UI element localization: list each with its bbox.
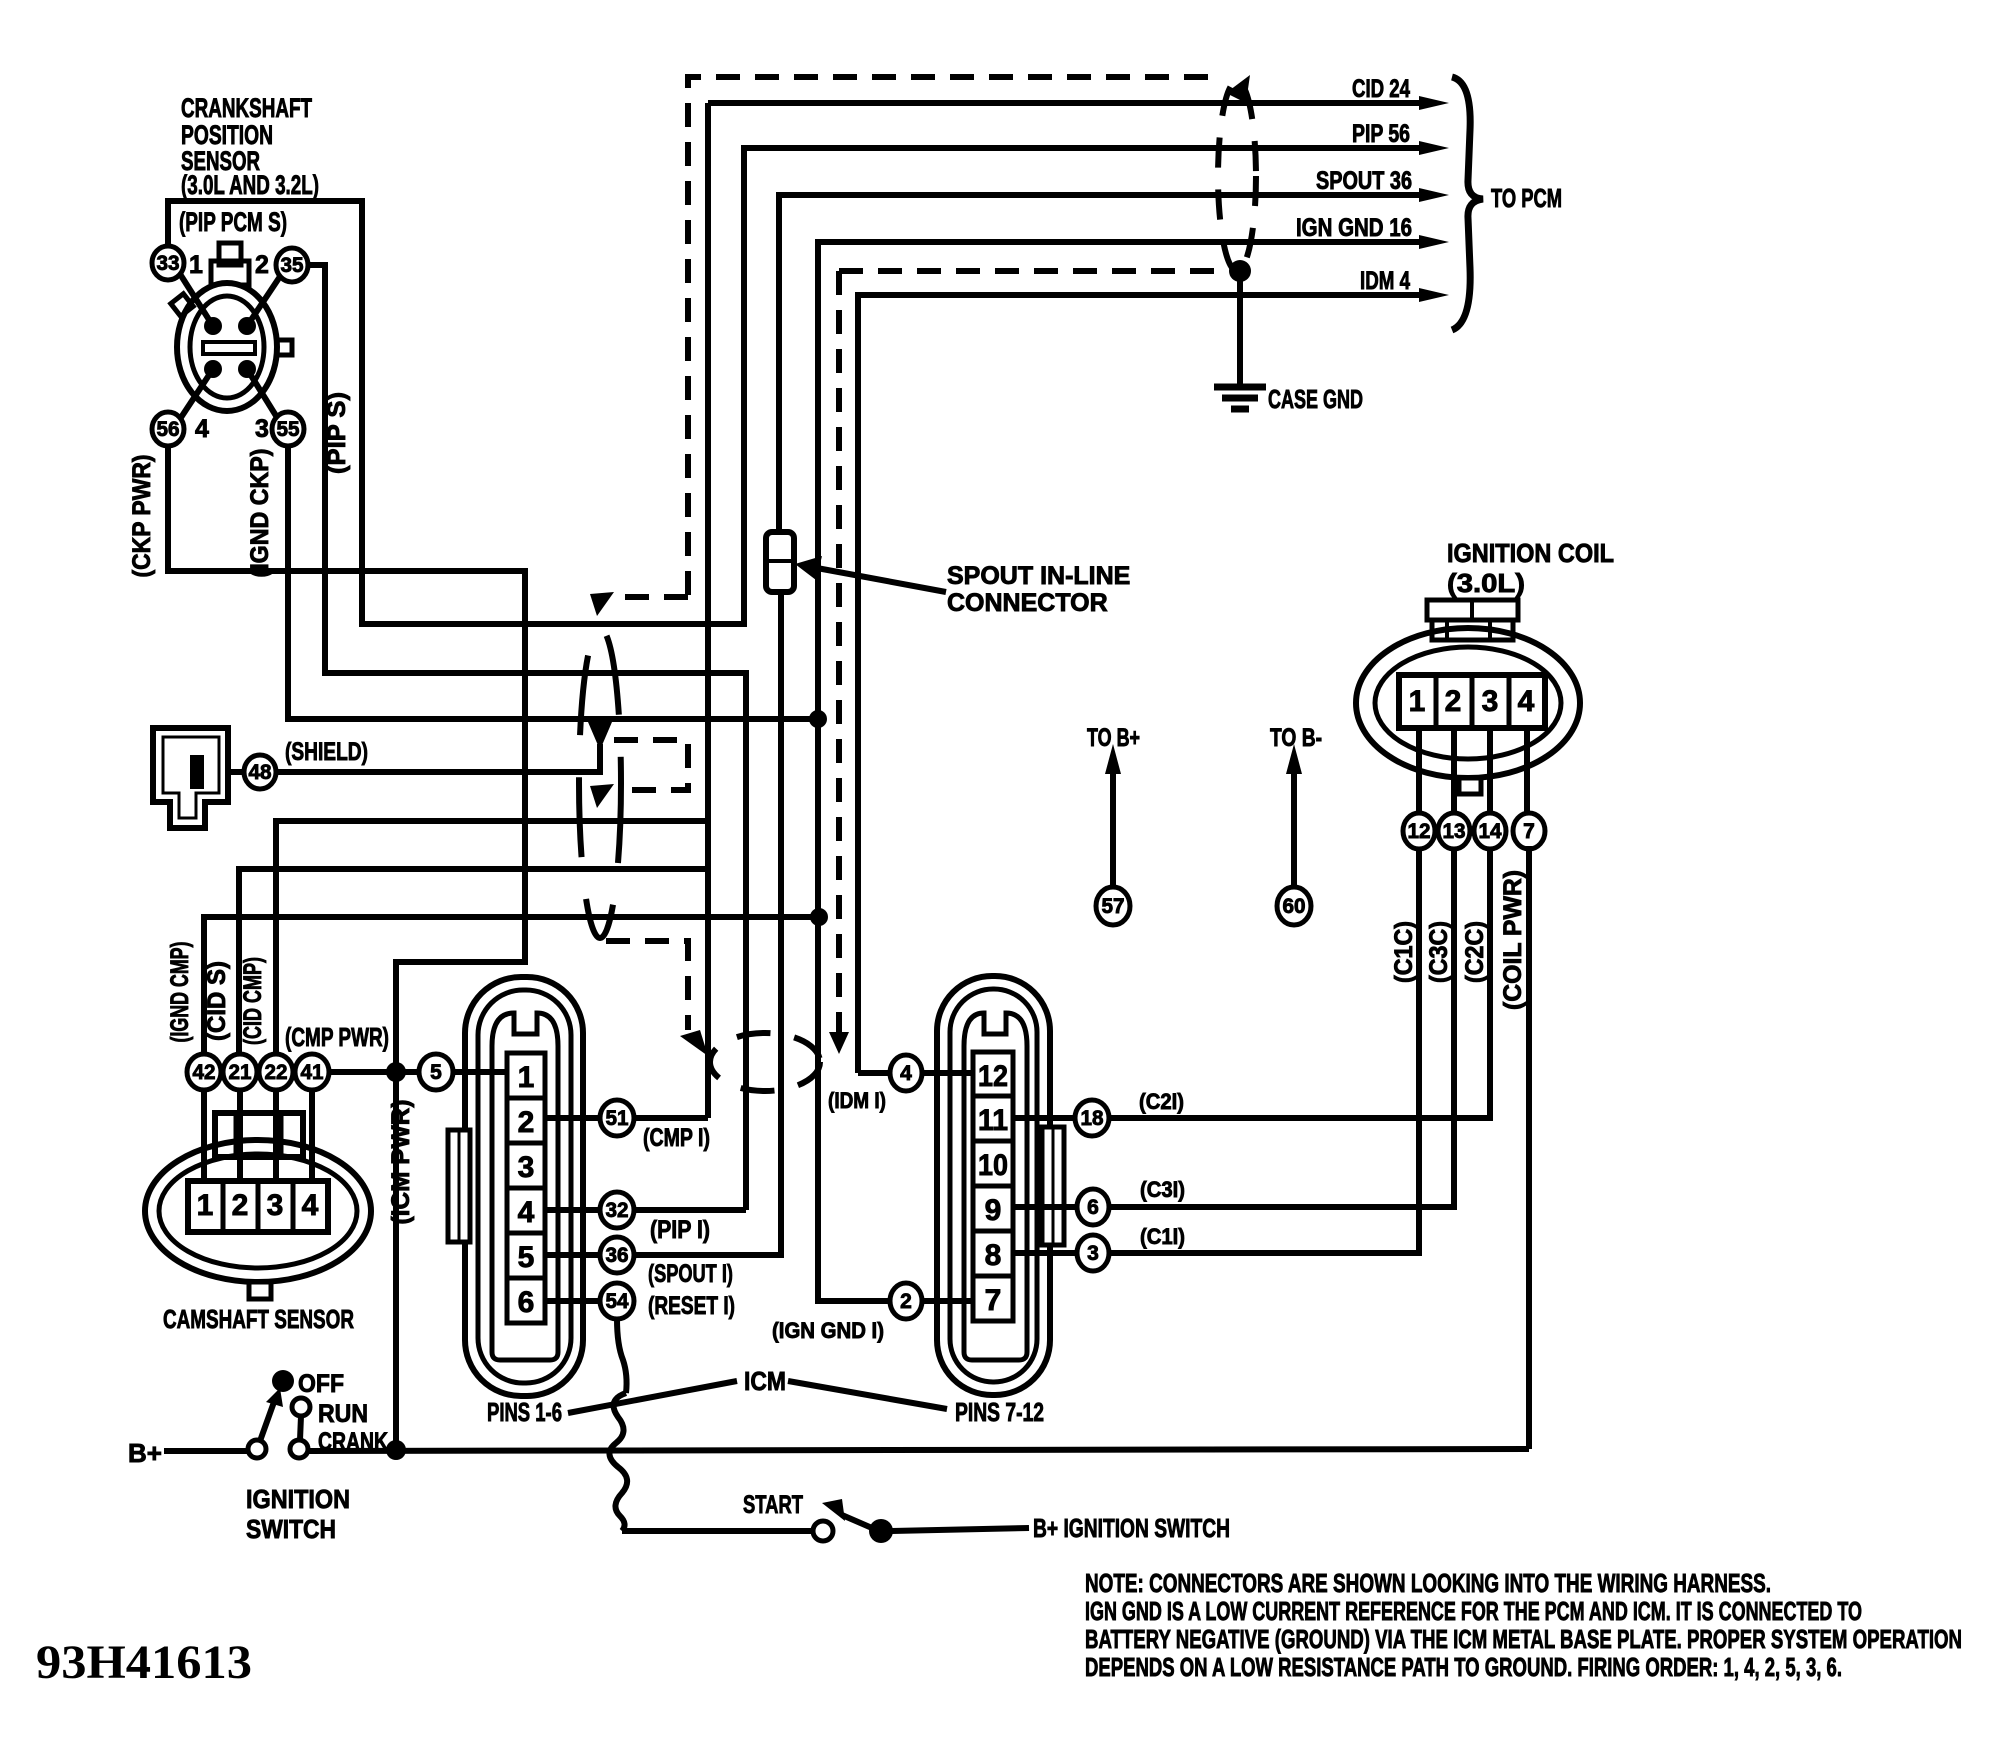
wire IGND CKP from 55 to IGN GND net (288, 446, 818, 719)
svg-text:TO PCM: TO PCM (1491, 183, 1562, 213)
node 42 (187, 1054, 221, 1090)
svg-text:14: 14 (1479, 820, 1502, 843)
svg-text:START: START (743, 1491, 803, 1519)
svg-text:42: 42 (193, 1061, 216, 1084)
svg-text:TO B-: TO B- (1270, 724, 1322, 752)
wire CKP pin4 to circle 56 (180, 369, 213, 419)
svg-text:5: 5 (518, 1241, 535, 1274)
wire CMP PWR 41 to ICM PWR junction to circle 5 (329, 1069, 419, 1075)
svg-text:PIP 56: PIP 56 (1352, 120, 1410, 148)
svg-text:55: 55 (277, 418, 300, 441)
wire SPOUT 36 to PCM (779, 195, 1420, 534)
node B+ junction (386, 1440, 406, 1460)
svg-text:(PIP PCM S): (PIP PCM S) (179, 207, 287, 237)
wire ICM pin2 CMP I (545, 1115, 708, 1121)
svg-text:CID 24: CID 24 (1352, 75, 1410, 103)
node 2 (890, 1283, 922, 1319)
node junction dot IGND CKP/IGN GND (809, 710, 827, 728)
svg-text:(IDM I): (IDM I) (828, 1088, 886, 1113)
svg-text:6: 6 (1087, 1196, 1099, 1219)
RUN contact (292, 1398, 310, 1416)
wire START (622, 1528, 813, 1534)
svg-text:CASE GND: CASE GND (1268, 384, 1363, 414)
svg-text:21: 21 (229, 1061, 252, 1084)
start switch blade (842, 1515, 872, 1528)
svg-text:7: 7 (985, 1284, 1002, 1317)
node start dot (869, 1519, 893, 1543)
wire CKP pin1 to circle 33 (180, 274, 213, 326)
svg-text:SPOUT 36: SPOUT 36 (1316, 167, 1412, 195)
node 60 (1277, 887, 1311, 925)
wire IDM 4 to PCM (858, 295, 1420, 1073)
wire IGN GND 16 to PCM (818, 242, 1420, 719)
wire CKP pin3 to circle 55 (247, 369, 278, 419)
node 32 (600, 1192, 634, 1228)
svg-text:13: 13 (1443, 820, 1466, 843)
node 57 (1096, 887, 1130, 925)
svg-text:ICM: ICM (744, 1366, 786, 1396)
node 22 (259, 1054, 293, 1090)
wire IGND CMP (204, 917, 819, 1056)
svg-text:IGN GND IS A LOW CURRENT REFER: IGN GND IS A LOW CURRENT REFERENCE FOR T… (1085, 1596, 1862, 1626)
svg-text:51: 51 (606, 1107, 629, 1130)
SPOUT in-line connector (766, 532, 794, 592)
wire IDM I to pin 12 (858, 1070, 973, 1076)
node 12 (1403, 813, 1435, 849)
node OFF dot (272, 1370, 294, 1392)
camshaft sensor connector (145, 1089, 371, 1299)
svg-text:2: 2 (255, 251, 269, 279)
svg-text:CONNECTOR: CONNECTOR (947, 589, 1108, 617)
svg-text:3: 3 (1482, 685, 1499, 718)
node 6 (1077, 1189, 1109, 1225)
svg-text:SPOUT IN-LINE: SPOUT IN-LINE (947, 562, 1130, 590)
svg-text:(CMP I): (CMP I) (643, 1124, 710, 1152)
svg-text:OFF: OFF (298, 1370, 344, 1398)
brace TO PCM (1452, 77, 1483, 330)
dashed link ellipse B to ellipse C (606, 941, 688, 1030)
node 41 (295, 1054, 329, 1090)
ignition coil connector (1356, 600, 1580, 816)
dashed arrow into ellipse B top (618, 594, 688, 600)
svg-text:(C3I): (C3I) (1140, 1177, 1185, 1202)
svg-text:8: 8 (985, 1239, 1002, 1272)
wire B+ bus to coil pwr (308, 1449, 1529, 1451)
svg-text:33: 33 (157, 252, 180, 275)
svg-text:(PIP I): (PIP I) (650, 1216, 710, 1244)
wire COIL PWR to B+ (1526, 846, 1532, 1449)
node 21 (223, 1054, 257, 1090)
svg-text:(SPOUT I): (SPOUT I) (648, 1260, 733, 1288)
svg-text:(C1I): (C1I) (1140, 1224, 1185, 1249)
svg-text:4: 4 (1518, 685, 1535, 718)
wire CID 24 to PCM (708, 100, 1420, 106)
node 7 (1513, 813, 1545, 849)
node 14 (1474, 813, 1506, 849)
svg-text:(IGND CMP): (IGND CMP) (166, 942, 194, 1043)
wire ICM pin5 SPOUT I (545, 591, 781, 1255)
svg-text:IGN GND 16: IGN GND 16 (1296, 214, 1412, 242)
node 48 (244, 755, 276, 789)
svg-text:9: 9 (985, 1194, 1002, 1227)
svg-text:(SHIELD): (SHIELD) (285, 738, 368, 766)
wire CKP pin2 to circle 35 (247, 275, 281, 326)
svg-text:3: 3 (255, 415, 269, 443)
svg-text:7: 7 (1523, 820, 1535, 843)
svg-text:11: 11 (978, 1104, 1008, 1137)
svg-text:1: 1 (197, 1189, 214, 1222)
wire ICM pin6 RESET I (545, 1298, 600, 1304)
svg-text:DEPENDS ON A LOW RESISTANCE PA: DEPENDS ON A LOW RESISTANCE PATH TO GROU… (1085, 1652, 1842, 1682)
wire shield to 48 (228, 769, 245, 775)
svg-text:4: 4 (195, 415, 209, 443)
svg-text:5: 5 (430, 1061, 442, 1084)
svg-text:18: 18 (1081, 1107, 1104, 1130)
wire PIP 56 to PCM (from CKP pin1 PIP PCM S) (168, 148, 1420, 624)
dashed bracket shield link (614, 740, 688, 790)
svg-text:4: 4 (518, 1196, 535, 1229)
node 13 (1438, 813, 1470, 849)
svg-text:(CKP PWR): (CKP PWR) (128, 455, 156, 578)
svg-text:56: 56 (157, 418, 180, 441)
svg-text:57: 57 (1102, 895, 1125, 918)
svg-text:CAMSHAFT SENSOR: CAMSHAFT SENSOR (163, 1304, 354, 1334)
svg-text:22: 22 (265, 1061, 288, 1084)
svg-text:RUN: RUN (318, 1400, 368, 1428)
wire 5 to ICM pin 1 (453, 1069, 512, 1075)
svg-text:2: 2 (518, 1106, 535, 1139)
node 36 (600, 1237, 634, 1273)
svg-text:3: 3 (518, 1151, 535, 1184)
svg-text:(ICM PWR): (ICM PWR) (387, 1100, 415, 1225)
svg-text:PINS 7-12: PINS 7-12 (955, 1397, 1044, 1427)
shield terminal connector (153, 728, 228, 828)
svg-text:(CMP PWR): (CMP PWR) (285, 1022, 389, 1052)
svg-text:(RESET I): (RESET I) (648, 1292, 735, 1320)
svg-text:(CID CMP): (CID CMP) (239, 957, 267, 1045)
wire C2I pin11 to coil C2C (1013, 846, 1490, 1118)
node 3 (1077, 1235, 1109, 1271)
node: shield junction dot (1229, 260, 1251, 282)
dashed drain to case ground dot (839, 268, 1225, 274)
svg-text:3: 3 (1087, 1242, 1099, 1265)
wire CID/CMP I vertical (705, 103, 711, 1118)
svg-text:(COIL PWR): (COIL PWR) (1499, 870, 1527, 1010)
svg-text:2: 2 (232, 1189, 249, 1222)
shield ellipse A around PCM wires (1218, 81, 1256, 271)
svg-text:10: 10 (978, 1149, 1008, 1182)
svg-text:(CID S): (CID S) (203, 961, 231, 1041)
ICM pins 1-6 boxes (507, 1053, 545, 1323)
node 54 (600, 1283, 634, 1319)
wire C3I pin9 to coil C3C (1013, 846, 1454, 1207)
svg-text:60: 60 (1283, 895, 1306, 918)
svg-text:(IGND CKP): (IGND CKP) (246, 449, 274, 578)
svg-text:(C3C): (C3C) (1425, 921, 1453, 983)
node 18 (1075, 1100, 1109, 1136)
shield ellipse B around sensor wires (579, 628, 621, 938)
svg-text:1: 1 (1409, 685, 1426, 718)
svg-text:54: 54 (606, 1290, 629, 1313)
svg-text:SWITCH: SWITCH (246, 1514, 336, 1544)
svg-text:(C2C): (C2C) (1461, 921, 1489, 983)
CKP connector body (171, 243, 292, 411)
svg-text:NOTE: CONNECTORS ARE SHOWN LOO: NOTE: CONNECTORS ARE SHOWN LOOKING INTO … (1085, 1568, 1771, 1598)
node shield triangle dot (588, 722, 612, 750)
svg-text:PINS 1-6: PINS 1-6 (487, 1397, 562, 1427)
svg-text:41: 41 (301, 1061, 324, 1084)
wire 48 to shield drain dot (276, 744, 600, 772)
svg-text:4: 4 (302, 1189, 319, 1222)
svg-text:IGNITION: IGNITION (246, 1484, 350, 1514)
ICM connector pins 7-12 shell (937, 976, 1064, 1395)
svg-text:(3.0L): (3.0L) (1447, 568, 1525, 598)
shield drain dashed wire top (688, 77, 1215, 595)
ignition switch contacts (248, 1440, 266, 1458)
ground CASE GND (1237, 271, 1243, 385)
svg-text:2: 2 (1445, 685, 1462, 718)
svg-text:12: 12 (1408, 820, 1431, 843)
wire PIP S from 35 to ICM pin4 net (308, 265, 746, 1210)
svg-text:4: 4 (900, 1062, 912, 1085)
switch blade to OFF (260, 1402, 274, 1441)
svg-text:IGNITION COIL: IGNITION COIL (1447, 538, 1614, 568)
svg-text:B+ IGNITION SWITCH: B+ IGNITION SWITCH (1033, 1513, 1230, 1543)
svg-text:1: 1 (518, 1061, 535, 1094)
svg-text:93H41613: 93H41613 (36, 1636, 252, 1689)
node 51 (600, 1100, 634, 1136)
node 4 (890, 1055, 922, 1091)
svg-text:36: 36 (606, 1244, 629, 1267)
svg-text:BATTERY NEGATIVE (GROUND) VIA: BATTERY NEGATIVE (GROUND) VIA THE ICM ME… (1085, 1624, 1962, 1654)
svg-text:(C2I): (C2I) (1139, 1089, 1184, 1114)
wire CID CMP (276, 821, 708, 1056)
wire to B+ ignition switch (892, 1528, 1029, 1531)
node 5 (419, 1054, 453, 1090)
svg-text:32: 32 (606, 1199, 629, 1222)
wire IGN GND I to pin 7 (818, 719, 973, 1301)
ICM connector pins 1-6 shell (448, 977, 583, 1396)
wire B+ to ignition switch (164, 1448, 249, 1454)
svg-text:6: 6 (518, 1286, 535, 1319)
svg-text:(3.0L AND 3.2L): (3.0L AND 3.2L) (181, 170, 319, 200)
wire ICM pin4 PIP I (545, 1207, 746, 1213)
svg-text:(C1C): (C1C) (1390, 921, 1418, 983)
svg-text:CRANKSHAFT: CRANKSHAFT (181, 93, 312, 123)
wire RESET I squiggle into ICM (617, 1319, 627, 1393)
svg-text:(IGN GND I): (IGN GND I) (772, 1318, 884, 1343)
wire CID S (239, 869, 708, 1056)
node 35 (276, 248, 308, 282)
node 56 (152, 412, 184, 446)
svg-text:3: 3 (267, 1189, 284, 1222)
svg-text:35: 35 (281, 254, 304, 277)
svg-text:2: 2 (900, 1290, 912, 1313)
svg-text:IDM 4: IDM 4 (1360, 267, 1410, 295)
wire C1I pin8 to coil C1C (1013, 846, 1419, 1253)
node 55 (272, 412, 304, 446)
svg-text:B+: B+ (128, 1438, 162, 1468)
svg-text:1: 1 (189, 251, 203, 279)
shield ellipse C around IDM wire (710, 1033, 820, 1091)
svg-text:12: 12 (978, 1060, 1008, 1093)
node 33 (152, 246, 184, 280)
ICM pins 7-12 boxes (973, 1052, 1013, 1321)
svg-text:48: 48 (249, 761, 272, 784)
wire CKP PWR from 56 to B+ junction (168, 446, 525, 1449)
